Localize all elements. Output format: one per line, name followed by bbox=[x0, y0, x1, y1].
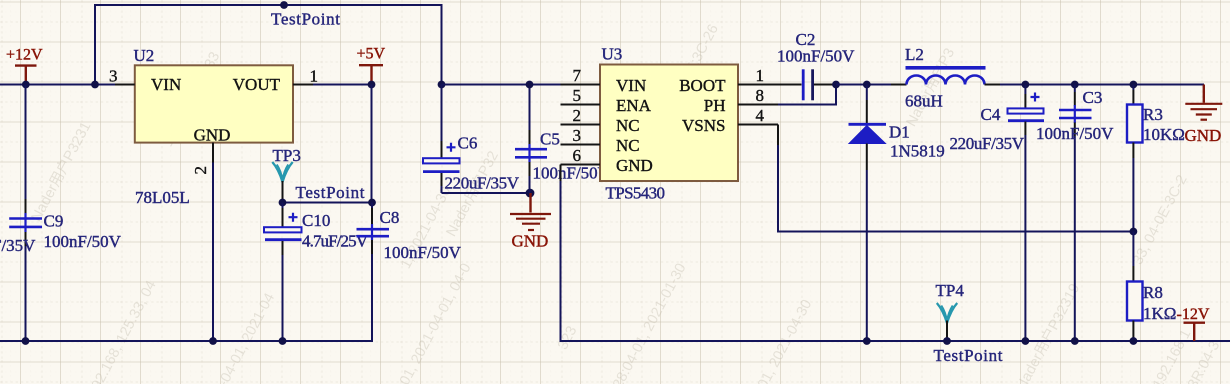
svg-text:3: 3 bbox=[573, 126, 582, 145]
svg-text:C6: C6 bbox=[458, 134, 478, 153]
svg-text:C3: C3 bbox=[1083, 88, 1103, 107]
capacitor C6 polarized bbox=[423, 85, 520, 194]
wire L2 to right bbox=[985, 84, 1001, 86]
pin 2 U2 bbox=[191, 143, 213, 175]
svg-text:220uF/35V: 220uF/35V bbox=[445, 174, 520, 193]
capacitor C10 polarized bbox=[264, 203, 369, 342]
svg-text:1N5819: 1N5819 bbox=[890, 142, 945, 161]
node gnd junction bbox=[526, 189, 535, 198]
node junction top loop left bbox=[91, 81, 99, 89]
svg-text:TPS5430: TPS5430 bbox=[606, 184, 666, 203]
svg-text:U2: U2 bbox=[134, 46, 155, 65]
diode D1 1N5819 bbox=[849, 85, 945, 342]
node VSNS/R3 junction bbox=[1130, 228, 1138, 236]
wire C6 bottom to gnd node bbox=[442, 192, 531, 194]
svg-text:68uH: 68uH bbox=[905, 92, 943, 111]
wire U2 out to +5V bbox=[313, 84, 372, 86]
pin 8 U3 bbox=[738, 86, 778, 105]
power +5V bbox=[357, 46, 386, 85]
wire VIN row to U3 bbox=[442, 84, 561, 86]
svg-text:C10: C10 bbox=[302, 211, 330, 230]
svg-text:VIN: VIN bbox=[151, 75, 181, 94]
svg-text:1: 1 bbox=[310, 67, 319, 86]
svg-text:4: 4 bbox=[756, 106, 765, 125]
node C4 junction bbox=[1022, 81, 1030, 89]
svg-text:U3: U3 bbox=[602, 45, 623, 64]
svg-text:TestPoint: TestPoint bbox=[296, 183, 365, 202]
svg-text:2: 2 bbox=[191, 166, 210, 175]
inductor L2 bbox=[905, 45, 986, 111]
pin 2 U3 bbox=[561, 106, 601, 125]
node C2/PH junction bbox=[832, 81, 840, 89]
svg-text:8: 8 bbox=[756, 86, 765, 105]
wire PH row to L2 bbox=[836, 84, 891, 86]
svg-text:PH: PH bbox=[704, 96, 726, 115]
node C6 top junction bbox=[438, 81, 446, 89]
capacitor C9 bbox=[9, 85, 121, 342]
resistor R8 bbox=[1127, 232, 1176, 342]
svg-text:GND: GND bbox=[512, 232, 549, 251]
svg-text:TP4: TP4 bbox=[936, 281, 965, 300]
node rail U2 gnd bbox=[209, 337, 217, 345]
svg-text:10KΩ: 10KΩ bbox=[1143, 125, 1185, 144]
svg-text:100nF/50V: 100nF/50V bbox=[1036, 124, 1114, 143]
node top testpoint dot bbox=[280, 1, 288, 9]
svg-text:C9: C9 bbox=[44, 212, 64, 231]
svg-text:R8: R8 bbox=[1143, 283, 1163, 302]
svg-text:3: 3 bbox=[109, 67, 118, 86]
svg-text:100nF/50V: 100nF/50V bbox=[533, 164, 611, 183]
svg-text:VOUT: VOUT bbox=[233, 75, 281, 94]
pin 4 U3 bbox=[738, 106, 778, 125]
pin 3 U2 bbox=[109, 67, 135, 86]
svg-text:5: 5 bbox=[573, 86, 582, 105]
power -12V bbox=[1177, 306, 1210, 341]
pin 1 U3 bbox=[738, 66, 778, 85]
pin 6 U3 bbox=[561, 146, 601, 165]
node rail C3 bbox=[1071, 337, 1079, 345]
svg-text:+12V: +12V bbox=[6, 47, 43, 64]
ground GND (C5/C6) bbox=[510, 193, 551, 251]
component U2 78L05L bbox=[134, 46, 294, 207]
pin 7 U3 bbox=[561, 66, 601, 85]
svg-text:220uF/35V: 220uF/35V bbox=[950, 134, 1025, 153]
svg-text:GND: GND bbox=[1185, 126, 1222, 145]
svg-text:6: 6 bbox=[573, 146, 582, 165]
svg-text:4.7uF/25V: 4.7uF/25V bbox=[302, 231, 369, 250]
svg-text:TP3: TP3 bbox=[273, 146, 301, 165]
node rail R8 bbox=[1130, 337, 1138, 345]
testpoint TP4 bbox=[934, 281, 1003, 365]
node TP3 junction bbox=[279, 199, 287, 207]
node rail D1 bbox=[863, 337, 871, 345]
capacitor C5 bbox=[515, 85, 611, 194]
svg-text:GND: GND bbox=[616, 156, 653, 175]
svg-text:-12V: -12V bbox=[1177, 306, 1210, 323]
capacitor C3 bbox=[1036, 85, 1114, 342]
testpoint TP3 bbox=[272, 146, 364, 203]
resistor R3 bbox=[1127, 85, 1185, 232]
svg-text:VSNS: VSNS bbox=[682, 116, 725, 135]
svg-text:GND: GND bbox=[194, 126, 231, 145]
capacitor C2 bbox=[777, 30, 855, 100]
capacitor C8 bbox=[357, 203, 462, 263]
node R3 junction bbox=[1130, 81, 1138, 89]
node C3 junction bbox=[1071, 81, 1079, 89]
svg-text:D1: D1 bbox=[889, 123, 910, 142]
node rail C4 bbox=[1022, 337, 1030, 345]
node C8 top junction bbox=[368, 199, 376, 207]
node rail TP4 bbox=[943, 337, 951, 345]
svg-text:100nF/50V: 100nF/50V bbox=[44, 232, 122, 251]
svg-text:1KΩ: 1KΩ bbox=[1143, 304, 1176, 323]
svg-text:R3: R3 bbox=[1143, 105, 1163, 124]
ground GND (right) bbox=[1185, 85, 1223, 145]
svg-text:L2: L2 bbox=[905, 45, 924, 64]
wire top loop to TestPoint bbox=[95, 5, 442, 85]
pin 1 U2 bbox=[293, 67, 318, 86]
node +5V junction bbox=[368, 81, 376, 89]
pin 5 U3 bbox=[561, 86, 601, 105]
pin 3 U3 bbox=[561, 126, 601, 145]
svg-text:C5: C5 bbox=[540, 130, 560, 149]
wire testpoint row bbox=[283, 202, 373, 204]
wire +12V horizontal rail bbox=[0, 84, 115, 86]
svg-text:TestPoint: TestPoint bbox=[271, 10, 340, 29]
component U3 TPS5430 bbox=[600, 45, 738, 203]
power +12V bbox=[15, 66, 37, 85]
svg-text:F/35V: F/35V bbox=[0, 236, 36, 255]
svg-text:78L05L: 78L05L bbox=[135, 188, 190, 207]
svg-text:1: 1 bbox=[756, 66, 765, 85]
svg-text:BOOT: BOOT bbox=[679, 76, 726, 95]
node rail C9 bbox=[22, 337, 30, 345]
svg-text:+5V: +5V bbox=[357, 46, 386, 63]
svg-text:ENA: ENA bbox=[616, 96, 652, 115]
svg-text:2: 2 bbox=[573, 106, 582, 125]
wire +5V down to testpoint row bbox=[371, 85, 373, 203]
wire PH up to boot row bbox=[778, 85, 836, 105]
node rail C10 bbox=[279, 337, 287, 345]
svg-text:100nF/50V: 100nF/50V bbox=[777, 47, 855, 66]
wire C8 down and left rail bbox=[371, 240, 373, 254]
wire pin6 down to right rail bbox=[560, 165, 562, 182]
wire VSNS feedback bbox=[777, 125, 779, 146]
node D1 junction bbox=[863, 81, 871, 89]
svg-text:C8: C8 bbox=[380, 208, 400, 227]
node junction +12V/wire bbox=[22, 81, 30, 89]
capacitor C4 polarized bbox=[950, 85, 1045, 342]
svg-text:NC: NC bbox=[616, 136, 640, 155]
wire U2 gnd down bbox=[212, 163, 214, 342]
svg-text:C4: C4 bbox=[981, 105, 1001, 124]
node C5 top junction bbox=[526, 81, 534, 89]
svg-text:100nF/50V: 100nF/50V bbox=[384, 243, 462, 262]
svg-text:7: 7 bbox=[573, 66, 582, 85]
svg-text:VIN: VIN bbox=[616, 76, 646, 95]
svg-text:NC: NC bbox=[616, 116, 640, 135]
watermark texts bbox=[25, 118, 95, 225]
svg-text:TestPoint: TestPoint bbox=[934, 346, 1003, 365]
